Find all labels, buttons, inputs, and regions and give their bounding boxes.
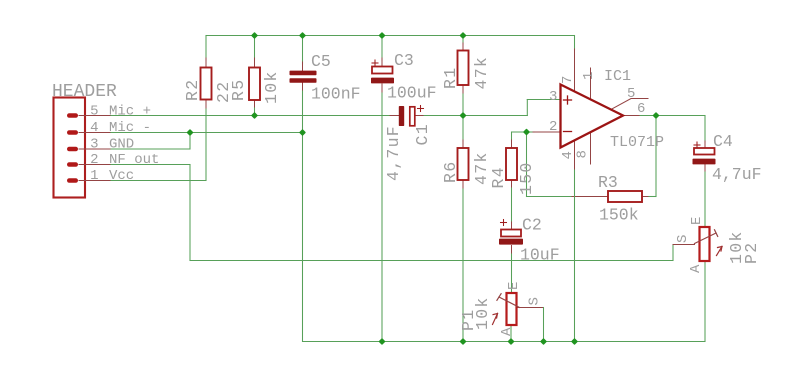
- svg-text:4,7uF: 4,7uF: [712, 165, 762, 184]
- P2 arrow: [717, 247, 723, 256]
- header pins: [79, 116, 110, 181]
- svg-text:5: 5: [90, 104, 98, 120]
- svg-text:IC1: IC1: [604, 68, 631, 85]
- wire R2 column: [205, 36, 207, 61]
- header pad 1: [67, 178, 78, 183]
- svg-text:5: 5: [627, 86, 635, 102]
- resistor R4: [506, 148, 517, 180]
- svg-text:P2: P2: [742, 242, 761, 264]
- plus sign C3: [372, 60, 378, 66]
- wire Vcc from header pin1: [110, 180, 206, 182]
- wire signal row Mic+: [110, 115, 391, 117]
- svg-text:HEADER: HEADER: [52, 82, 117, 102]
- node top rail C3: [378, 32, 385, 39]
- op-amp plus minus: [564, 96, 572, 132]
- header pad 4: [67, 130, 78, 135]
- plus sign C2: [501, 220, 507, 226]
- svg-text:E: E: [689, 217, 705, 225]
- svg-text:Mic +: Mic +: [109, 104, 151, 120]
- header pad 3: [67, 147, 78, 152]
- svg-text:S: S: [527, 297, 543, 305]
- svg-text:R3: R3: [598, 173, 618, 192]
- wire ground bottom rail: [303, 341, 706, 343]
- capacitor C3 plates: [372, 67, 393, 74]
- svg-text:Mic -: Mic -: [109, 120, 151, 136]
- node rail C3: [378, 338, 385, 345]
- svg-text:1: 1: [90, 168, 98, 184]
- svg-text:TL071P: TL071P: [610, 134, 664, 151]
- svg-text:8: 8: [575, 150, 591, 158]
- pin 1 stub: [590, 68, 592, 100]
- text pin numbers: [90, 104, 98, 185]
- header pad 5: [67, 113, 78, 118]
- header CON1 box: [54, 98, 86, 198]
- svg-text:6: 6: [637, 101, 645, 117]
- svg-text:150: 150: [517, 161, 536, 195]
- wire C5 column down to ground rail: [302, 36, 304, 65]
- svg-text:Vcc: Vcc: [109, 168, 134, 184]
- svg-text:R2: R2: [183, 79, 202, 101]
- svg-text:A: A: [499, 327, 515, 336]
- resistor R2: [201, 68, 212, 100]
- node inverting input: [523, 128, 530, 135]
- node top rail C5: [299, 32, 306, 39]
- svg-text:NF out: NF out: [109, 152, 159, 168]
- wire R1 column: [462, 36, 464, 45]
- svg-text:2: 2: [549, 119, 557, 135]
- node gnd C5: [299, 129, 306, 136]
- svg-text:150k: 150k: [599, 206, 639, 225]
- svg-text:R1: R1: [441, 67, 460, 89]
- svg-text:10k: 10k: [473, 296, 492, 330]
- wire P1 wiper to rail: [518, 307, 544, 309]
- svg-text:100nF: 100nF: [311, 85, 361, 104]
- svg-text:47k: 47k: [472, 56, 491, 90]
- plus sign C1: [418, 106, 424, 112]
- node gnd header: [186, 129, 193, 136]
- node output feedback: [652, 112, 659, 119]
- node signal R5: [251, 112, 258, 119]
- plus sign C4: [694, 142, 700, 148]
- svg-text:4: 4: [90, 120, 98, 136]
- wire NF out net: [110, 164, 190, 166]
- potentiometer P2: [700, 227, 710, 261]
- wire op-amp output to C4/P2: [623, 115, 641, 117]
- wire R5 column: [254, 36, 256, 61]
- wire op-amp V+ pin7 column: [574, 36, 576, 51]
- op-amp IC1 triangle: [561, 85, 624, 148]
- wire top rail Vcc: [206, 35, 575, 37]
- P1 arrow: [493, 314, 498, 325]
- svg-text:100uF: 100uF: [387, 84, 437, 103]
- resistor R6: [458, 148, 469, 180]
- svg-text:3: 3: [90, 137, 98, 153]
- resistor R1: [458, 51, 469, 86]
- wire Mic-/GND row: [110, 132, 303, 134]
- pin 5 stub: [611, 99, 648, 110]
- svg-text:7: 7: [560, 76, 576, 84]
- svg-text:A: A: [688, 264, 704, 273]
- wire R4-C2-P1 column: [511, 180, 513, 188]
- svg-text:10k: 10k: [262, 70, 281, 104]
- capacitor C1 plates: [399, 106, 404, 126]
- capacitor C2 plates: [501, 230, 521, 237]
- node rail P1 A: [507, 338, 514, 345]
- svg-text:C1: C1: [413, 123, 432, 145]
- svg-text:2: 2: [90, 152, 98, 168]
- svg-text:R4: R4: [489, 166, 508, 188]
- svg-text:C3: C3: [394, 51, 414, 70]
- node signal R1/R6: [459, 112, 466, 119]
- wire C3 column down to ground rail: [381, 36, 383, 61]
- potentiometer P1: [507, 293, 517, 325]
- resistor R3: [608, 191, 642, 202]
- text pin names: [109, 104, 159, 185]
- svg-text:S: S: [675, 235, 691, 243]
- svg-text:C2: C2: [522, 216, 542, 235]
- node rail P1 S: [540, 338, 547, 345]
- svg-text:10uF: 10uF: [520, 246, 560, 265]
- svg-text:3: 3: [549, 89, 557, 105]
- svg-text:C5: C5: [311, 52, 331, 71]
- node rail opamp V-: [571, 338, 578, 345]
- svg-text:C4: C4: [713, 132, 733, 151]
- capacitor C5 plates: [290, 71, 317, 76]
- svg-text:R6: R6: [441, 161, 460, 183]
- svg-text:1: 1: [581, 72, 597, 80]
- svg-text:E: E: [506, 282, 522, 290]
- svg-text:4,7uF: 4,7uF: [384, 125, 403, 181]
- P1 wiper: [499, 297, 520, 308]
- resistor R5: [249, 68, 260, 101]
- pin 8 stub: [590, 133, 592, 164]
- node top rail R1: [459, 32, 466, 39]
- wire R6 column down to rail: [462, 116, 464, 142]
- node rail R6: [459, 338, 466, 345]
- wire inverting input net: [512, 131, 527, 133]
- capacitor C4 plates: [694, 148, 715, 155]
- node top rail R5: [251, 32, 258, 39]
- text op-amp pin numbers: [549, 72, 645, 160]
- svg-text:R5: R5: [229, 79, 248, 101]
- wire op-amp V- pin4 column to rail: [574, 141, 576, 170]
- P2 wiper: [695, 233, 717, 244]
- header pad 2: [67, 162, 78, 167]
- svg-text:GND: GND: [109, 137, 134, 153]
